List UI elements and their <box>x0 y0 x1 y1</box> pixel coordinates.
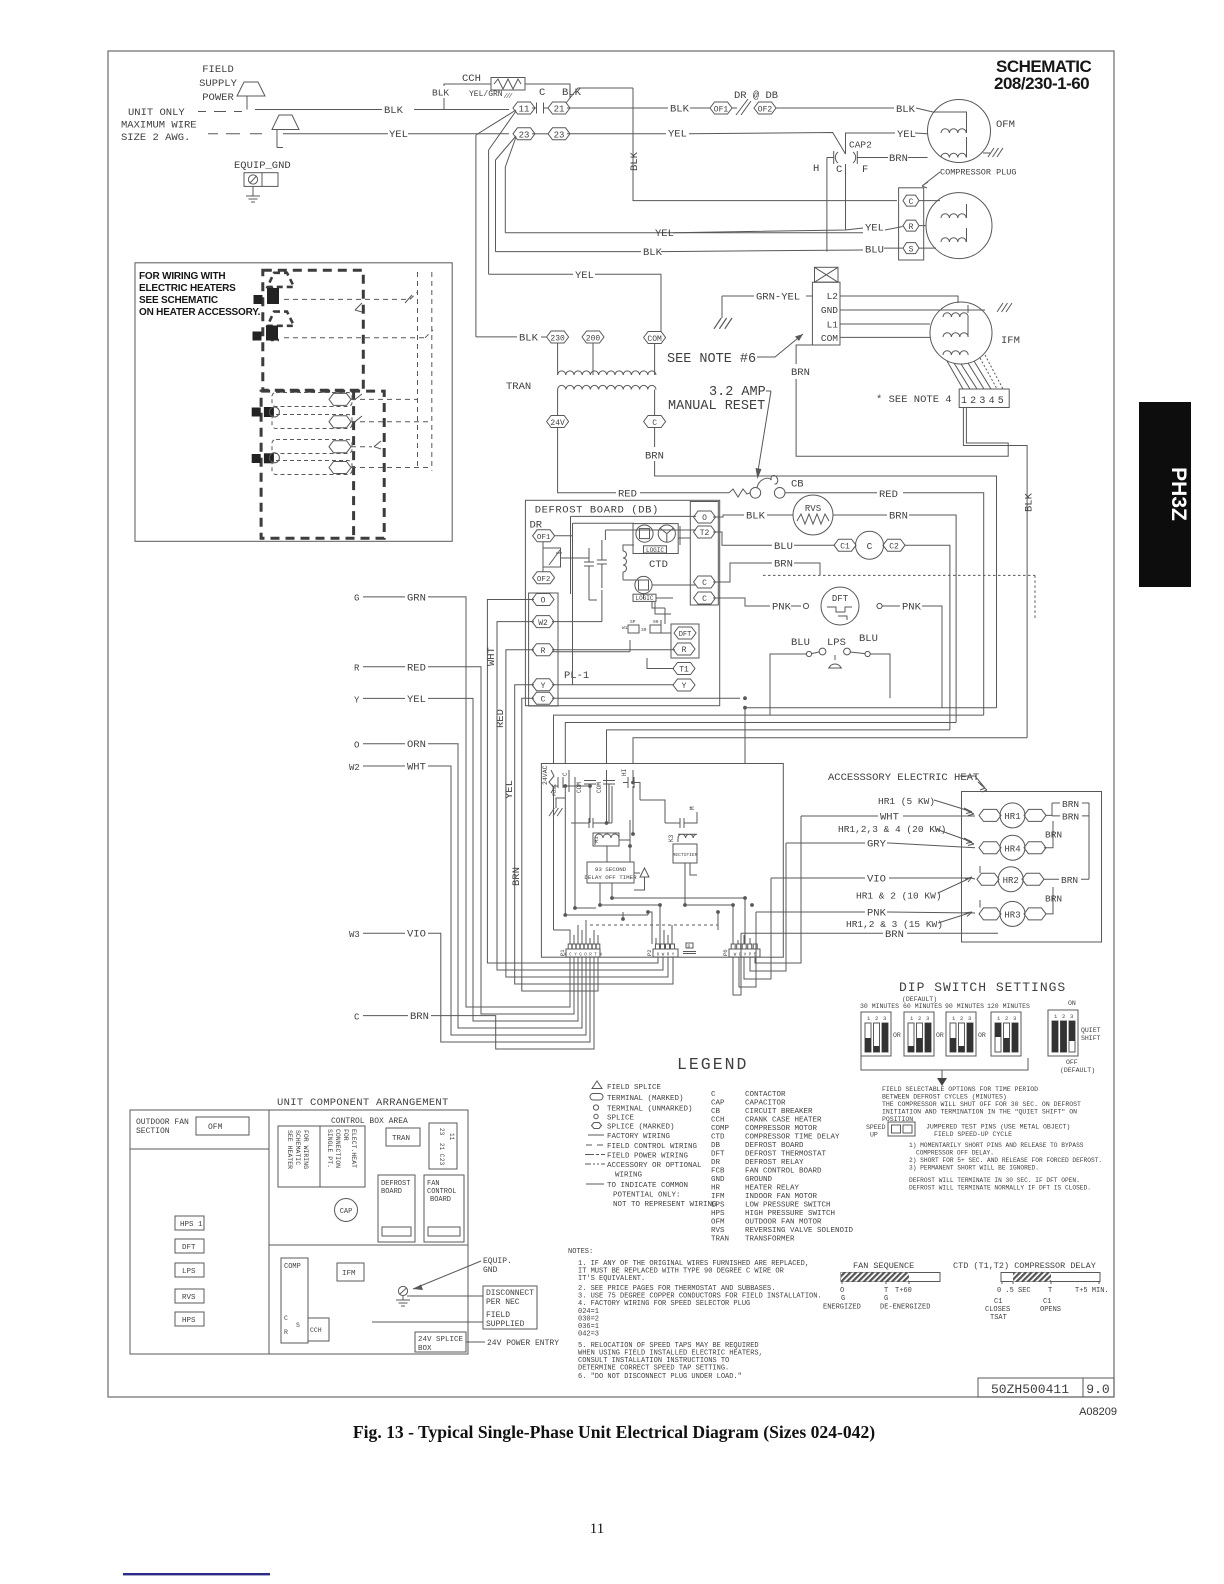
svg-text:12345: 12345 <box>961 396 1007 407</box>
svg-text:W2: W2 <box>349 763 360 773</box>
svg-text:R: R <box>541 647 546 656</box>
svg-text:PL-1: PL-1 <box>564 670 589 682</box>
dashed stubs from hexes <box>351 399 432 467</box>
field plug 1 <box>237 82 265 110</box>
svg-text:HR1,2 & 3 (15 KW): HR1,2 & 3 (15 KW) <box>846 919 943 930</box>
svg-text:FAN CONTROL BOARD: FAN CONTROL BOARD <box>745 1168 822 1176</box>
svg-text:TRANSFORMER: TRANSFORMER <box>745 1236 795 1244</box>
terminal 200 <box>582 331 604 343</box>
svg-text:NOTES:: NOTES: <box>568 1248 593 1256</box>
svg-text:11: 11 <box>448 1133 455 1141</box>
RVS box <box>175 1289 204 1303</box>
svg-text:FOR WIRING WITH: FOR WIRING WITH <box>139 271 225 282</box>
wire C lead down <box>845 164 847 230</box>
dashed leader to plug 2 <box>208 133 262 135</box>
svg-text:M: M <box>689 806 696 810</box>
svg-text:QUIET: QUIET <box>1081 1027 1101 1034</box>
svg-text:M1: M1 <box>593 836 600 843</box>
svg-text:CB: CB <box>791 479 804 491</box>
terminal T1 <box>673 663 695 675</box>
svg-text:LOGIC: LOGIC <box>635 595 653 602</box>
fan-out from terminal 23 <box>496 136 517 167</box>
svg-text:YEL: YEL <box>668 129 687 141</box>
svg-text:HR2: HR2 <box>1003 876 1019 886</box>
solenoid RVS <box>793 495 833 535</box>
svg-text:YEL: YEL <box>407 694 426 706</box>
legend: field power wiring <box>585 1154 605 1156</box>
svg-text:23: 23 <box>438 1128 445 1136</box>
svg-text:TRAN: TRAN <box>711 1236 729 1244</box>
svg-text:MANUAL RESET: MANUAL RESET <box>668 399 765 414</box>
heater box outline <box>962 792 1102 943</box>
svg-text:BRN: BRN <box>885 929 904 941</box>
defrost board DB outline <box>525 500 719 705</box>
wire BLU to S <box>496 248 903 252</box>
svg-text:W C Y G O R T W: W C Y G O R T W <box>564 954 602 958</box>
svg-text:HPS 1: HPS 1 <box>180 1221 203 1229</box>
svg-text:A08209: A08209 <box>1079 1406 1117 1418</box>
PH3Z black page tab <box>1139 402 1191 587</box>
heater plug rows in box 2 <box>272 393 352 475</box>
svg-text:GROUND: GROUND <box>745 1176 773 1184</box>
svg-text:TRAN: TRAN <box>506 381 531 393</box>
terminal 230 <box>547 331 569 343</box>
svg-text:FIELD: FIELD <box>202 64 234 76</box>
terminal OF1 <box>710 102 732 114</box>
svg-text:LEGEND: LEGEND <box>677 1055 748 1074</box>
splice (unmarked) left of DFT <box>803 603 808 608</box>
wire from plug to COM (BRN) <box>796 345 1008 456</box>
svg-text:SHIFT: SHIFT <box>1081 1035 1101 1042</box>
svg-text:FOR: FOR <box>342 1129 349 1141</box>
svg-text:Y: Y <box>354 695 360 705</box>
svg-text:R: R <box>909 223 914 232</box>
P2 riser wires <box>651 957 673 984</box>
svg-text:OFF: OFF <box>1066 1059 1078 1066</box>
wire YEL row from 23 to CAP2 <box>567 133 846 155</box>
svg-text:BRN: BRN <box>1061 875 1078 886</box>
svg-text:POWER: POWER <box>202 92 234 104</box>
junction box with X <box>815 267 839 282</box>
svg-text:CTD: CTD <box>649 559 668 571</box>
wire from C2 right <box>905 545 950 730</box>
relay HR1 <box>979 809 1001 821</box>
ground lug (unit) <box>398 1286 407 1295</box>
wire bend RED to control box <box>554 715 984 763</box>
svg-text:6. "DO NOT DISCONNECT PLUG UND: 6. "DO NOT DISCONNECT PLUG UNDER LOAD." <box>578 1373 742 1381</box>
terminal Y <box>532 679 554 691</box>
svg-text:HI: HI <box>621 769 628 776</box>
svg-text:3: 3 <box>968 1015 971 1022</box>
heavy dashed divider <box>352 391 355 538</box>
title block 50ZH500411 / 9.0 <box>978 1378 1083 1397</box>
svg-text:OUTDOOR FAN MOTOR: OUTDOOR FAN MOTOR <box>745 1219 822 1227</box>
svg-text:OF1: OF1 <box>537 534 551 542</box>
capacitor (DB) 1 <box>584 548 597 600</box>
svg-text:THE COMPRESSOR WILL SHUT OFF F: THE COMPRESSOR WILL SHUT OFF FOR 30 SEC.… <box>882 1101 1081 1108</box>
wire Y to bundle <box>515 685 669 984</box>
svg-text:COMP: COMP <box>284 1263 301 1271</box>
wire from plug 12345 down <box>963 408 1027 738</box>
wire BRN dashed common <box>713 563 820 582</box>
svg-text:G: G <box>884 1295 888 1303</box>
svg-text:IFM: IFM <box>342 1270 356 1278</box>
svg-text:COMPRESSOR OFF DELAY.: COMPRESSOR OFF DELAY. <box>916 1150 994 1157</box>
heater schematic note boxes <box>278 1126 365 1187</box>
svg-text:SEE NOTE #6: SEE NOTE #6 <box>667 352 756 367</box>
OFM box <box>196 1117 249 1135</box>
svg-text:NOT TO REPRESENT WIRING: NOT TO REPRESENT WIRING <box>613 1201 717 1209</box>
fan-out from terminal 11 <box>476 110 516 150</box>
speed tap wires IFM to plug <box>947 361 991 389</box>
resistor CCH <box>491 78 525 91</box>
coil K3 <box>678 834 697 842</box>
svg-text:CCH: CCH <box>310 1327 322 1334</box>
svg-text:C: C <box>562 772 569 776</box>
capacitor (DB) 2 <box>597 540 607 588</box>
IFM box <box>337 1263 364 1281</box>
terminal T2 <box>694 526 716 538</box>
legend symbol: field splice <box>592 1081 602 1089</box>
wire vertical to YEL row 2 <box>504 167 506 233</box>
svg-text:COMP: COMP <box>711 1125 730 1133</box>
wire OF2 to OFM <box>776 108 933 112</box>
terminal C (right strip upper) <box>694 576 716 588</box>
svg-text:90: 90 <box>653 619 659 625</box>
svg-text:BRN: BRN <box>410 1011 429 1023</box>
svg-text:OR: OR <box>893 1032 901 1039</box>
legend abbreviations column <box>711 1091 854 1244</box>
svg-text:C: C <box>909 198 914 207</box>
svg-text:RVS: RVS <box>805 504 821 514</box>
DB right terminal strip <box>690 502 718 606</box>
svg-text:P2: P2 <box>646 949 653 956</box>
motor IFM <box>930 302 992 364</box>
svg-text:RECTIFIER: RECTIFIER <box>673 852 698 858</box>
svg-text:30 MINUTES: 30 MINUTES <box>860 1003 899 1010</box>
svg-text:DFT: DFT <box>679 631 692 639</box>
svg-text:PNK: PNK <box>772 602 792 614</box>
svg-text:C1: C1 <box>840 542 850 551</box>
svg-text:DFT: DFT <box>711 1151 725 1159</box>
wire RED right of CB <box>785 493 984 715</box>
svg-text:FOR WIRING: FOR WIRING <box>302 1130 309 1169</box>
svg-text:YEL: YEL <box>865 222 884 234</box>
svg-text:O: O <box>354 741 359 751</box>
svg-text:COM: COM <box>821 333 838 344</box>
svg-text:O: O <box>702 514 707 523</box>
legend symbol: terminal unmarked <box>593 1105 598 1110</box>
svg-text:PNK: PNK <box>902 602 922 614</box>
svg-text:COMPRESSOR TIME DELAY: COMPRESSOR TIME DELAY <box>745 1134 840 1142</box>
wire branch up to vertical BLK <box>570 88 897 201</box>
svg-text:FACTORY WIRING: FACTORY WIRING <box>607 1133 671 1141</box>
svg-text:SP: SP <box>630 619 636 625</box>
dip block 90 minutes <box>946 1012 976 1056</box>
terminal COM <box>644 332 666 344</box>
svg-text:DEFROST: DEFROST <box>381 1180 410 1188</box>
terminal C (right strip lower) <box>694 592 716 604</box>
svg-text:BLK: BLK <box>746 511 766 523</box>
terminal W2 <box>532 616 554 628</box>
svg-text:IFM: IFM <box>1001 335 1020 347</box>
svg-text:2: 2 <box>875 1015 878 1022</box>
svg-text:1) MOMENTARILY SHORT PINS AND: 1) MOMENTARILY SHORT PINS AND RELEASE TO… <box>909 1142 1084 1149</box>
wire CAP2-C to OFM <box>846 133 928 154</box>
wire YEL to COM (tran) <box>489 274 661 331</box>
svg-text:BRN: BRN <box>1062 812 1079 823</box>
svg-text:DISCONNECT: DISCONNECT <box>486 1289 534 1298</box>
wire GRN-YEL <box>722 295 812 297</box>
wire bend BRN(C) to control box <box>745 708 997 764</box>
compressor motor <box>926 193 992 259</box>
svg-text:ELECTRIC HEATERS: ELECTRIC HEATERS <box>139 283 236 294</box>
jumper icons <box>628 625 639 633</box>
svg-text:24V SPLICE: 24V SPLICE <box>418 1336 464 1344</box>
svg-text:BLU: BLU <box>865 245 884 257</box>
svg-text:GRY: GRY <box>867 839 887 851</box>
wire vertical to YEL row <box>488 150 490 274</box>
svg-text:OF1: OF1 <box>714 106 729 115</box>
svg-text:50ZH500411: 50ZH500411 <box>991 1382 1069 1397</box>
svg-text:TO INDICATE COMMON: TO INDICATE COMMON <box>607 1182 688 1190</box>
wire BLU from T2 to C1 <box>713 532 835 545</box>
DB internal wiring <box>552 516 740 698</box>
svg-text:HR: HR <box>711 1185 721 1193</box>
svg-text:CONTROL: CONTROL <box>427 1188 456 1196</box>
svg-text:O: O <box>840 1287 844 1295</box>
partition vertical <box>268 1110 270 1354</box>
svg-text:WHT: WHT <box>880 812 899 824</box>
wire R to bundle <box>506 650 663 977</box>
svg-text:LPS: LPS <box>827 637 846 649</box>
svg-text:2: 2 <box>960 1015 963 1022</box>
svg-text:BRN: BRN <box>774 559 793 571</box>
top row connections <box>554 770 641 800</box>
LPS box <box>175 1263 204 1277</box>
svg-text:GND: GND <box>483 1266 498 1275</box>
svg-text:IFM: IFM <box>711 1193 725 1201</box>
svg-text:H: H <box>813 163 819 175</box>
equip ground lug box <box>244 173 278 187</box>
relay HR2 <box>977 873 999 885</box>
svg-text:YEL: YEL <box>504 780 516 799</box>
wire W2 to bundle <box>497 622 657 970</box>
field selectable text <box>882 1086 1081 1123</box>
svg-text:EQUIP_GND: EQUIP_GND <box>234 160 291 172</box>
svg-text:BLK: BLK <box>432 88 449 99</box>
DEFROST BOARD box <box>378 1175 415 1242</box>
svg-text:K3: K3 <box>668 834 675 842</box>
svg-text:ACCESSSORY ELECTRIC HEAT: ACCESSSORY ELECTRIC HEAT <box>828 772 979 784</box>
svg-text:BLK: BLK <box>384 105 404 117</box>
svg-text:W3: W3 <box>349 930 360 940</box>
svg-text:200: 200 <box>586 334 601 343</box>
relay coil M1 <box>595 834 619 845</box>
connector P6 <box>729 949 760 957</box>
svg-text:24V: 24V <box>550 419 565 428</box>
svg-text:DEFROST RELAY: DEFROST RELAY <box>745 1159 804 1167</box>
dashed vertical taps <box>418 272 432 471</box>
svg-text:HR1: HR1 <box>1004 812 1020 822</box>
svg-text:BRN: BRN <box>889 511 908 523</box>
dip block quiet shift <box>1048 1010 1078 1056</box>
terminal strip L2 GND L1 COM <box>812 282 840 345</box>
CTD block <box>633 524 678 554</box>
circuit breaker CB <box>729 489 750 497</box>
svg-text:HR1 (5 KW): HR1 (5 KW) <box>878 796 935 807</box>
legend symbol: terminal marked <box>590 1094 603 1101</box>
svg-text:T1: T1 <box>679 666 689 675</box>
relay DR coil box <box>543 548 561 567</box>
svg-text:SINGLE PT.: SINGLE PT. <box>326 1129 333 1168</box>
svg-text:ON HEATER ACCESSORY.: ON HEATER ACCESSORY. <box>139 307 261 318</box>
transformer secondary coil <box>558 385 656 389</box>
svg-text:G: G <box>354 593 359 603</box>
svg-text:RVS: RVS <box>182 1294 196 1302</box>
svg-text:GND: GND <box>821 305 838 316</box>
svg-text:3: 3 <box>1013 1015 1016 1022</box>
wire branch to crank case heater <box>444 84 491 110</box>
svg-text:9.0: 9.0 <box>1086 1382 1109 1397</box>
legend symbol: splice marked <box>592 1123 602 1129</box>
wire BLU right of LPS <box>870 654 890 698</box>
svg-text:1: 1 <box>910 1015 914 1022</box>
junction dots <box>743 706 747 710</box>
svg-text:C: C <box>702 595 707 604</box>
svg-text:LOGIC: LOGIC <box>646 547 664 554</box>
svg-text:BLK: BLK <box>519 333 539 345</box>
svg-text:ELECT.HEAT: ELECT.HEAT <box>350 1129 357 1168</box>
svg-text:HEATER RELAY: HEATER RELAY <box>745 1185 800 1193</box>
svg-text:PER NEC: PER NEC <box>486 1298 520 1307</box>
wires to connectors <box>554 898 757 944</box>
capacitor bank top row <box>558 770 634 792</box>
svg-text:CONNECTION: CONNECTION <box>334 1129 341 1168</box>
svg-text:INDOOR FAN MOTOR: INDOOR FAN MOTOR <box>745 1193 818 1201</box>
svg-text:OR: OR <box>936 1032 944 1039</box>
DFT/R terminal box <box>671 624 699 658</box>
capacitor mid left <box>571 818 612 828</box>
svg-text:SPLICE (MARKED): SPLICE (MARKED) <box>607 1124 675 1132</box>
svg-text:230: 230 <box>550 334 565 343</box>
DISCONNECT PER NEC / FIELD SUPPLIED box <box>483 1286 537 1329</box>
compressor COMP box <box>281 1258 308 1343</box>
svg-text:HR1 & 2 (10 KW): HR1 & 2 (10 KW) <box>856 891 942 902</box>
LOGIC label box (CTD) <box>644 546 667 553</box>
svg-text:UP: UP <box>870 1132 878 1139</box>
dashed plug B <box>268 312 295 340</box>
svg-text:DETERMINE CORRECT SPEED TAP SE: DETERMINE CORRECT SPEED TAP SETTING. <box>578 1365 729 1373</box>
svg-text:T+60: T+60 <box>895 1287 912 1295</box>
legend: factory wiring <box>588 1134 604 1136</box>
svg-text:YEL/GRN: YEL/GRN <box>469 90 503 99</box>
svg-text:BRN: BRN <box>511 867 523 886</box>
transformer primary leads <box>558 343 655 375</box>
svg-text:C1: C1 <box>994 1298 1002 1306</box>
svg-text:BLU: BLU <box>791 637 810 649</box>
triangle splice <box>640 868 649 884</box>
terminal OF1 (DB) <box>533 530 555 542</box>
svg-text:OFM: OFM <box>996 119 1015 131</box>
svg-text:CONTACTOR: CONTACTOR <box>745 1091 786 1099</box>
svg-text:RED: RED <box>495 709 507 728</box>
svg-text:SUPPLIED: SUPPLIED <box>486 1320 525 1329</box>
svg-text:23: 23 <box>438 1158 445 1166</box>
wire bend BLK to control box <box>633 738 1027 764</box>
svg-text:T+5 MIN.: T+5 MIN. <box>1075 1287 1109 1295</box>
svg-text:OFM: OFM <box>208 1123 223 1132</box>
svg-text:P6: P6 <box>722 949 729 956</box>
contactor terminal box <box>429 1123 457 1169</box>
selection bracket + arrow <box>861 1056 1028 1078</box>
wire vertical to BLK row <box>495 160 497 252</box>
svg-text:3: 3 <box>883 1015 886 1022</box>
svg-text:DEFROST THERMOSTAT: DEFROST THERMOSTAT <box>745 1151 827 1159</box>
svg-text:HR3: HR3 <box>1004 911 1020 921</box>
svg-text:Fig. 13 - Typical Single-Phase: Fig. 13 - Typical Single-Phase Unit Elec… <box>353 1422 875 1442</box>
dip block 120 minutes <box>991 1012 1021 1056</box>
wire YEL to R <box>505 227 902 233</box>
svg-text:UNIT COMPONENT ARRANGEMENT: UNIT COMPONENT ARRANGEMENT <box>277 1097 449 1109</box>
svg-text:FIELD CONTROL WIRING: FIELD CONTROL WIRING <box>607 1143 698 1151</box>
svg-text:YEL: YEL <box>655 228 674 240</box>
timer box 93 SECOND DELAY OFF TIMER <box>587 862 634 883</box>
rectifier box <box>673 844 697 863</box>
svg-text:C: C <box>867 541 873 552</box>
label 24V POWER ENTRY <box>466 1341 485 1343</box>
svg-text:C: C <box>836 164 842 176</box>
LOGIC label box 2 <box>633 594 656 601</box>
svg-text:CAP: CAP <box>711 1100 725 1108</box>
svg-text:(DEFAULT): (DEFAULT) <box>902 996 937 1003</box>
svg-text:CIRCUIT BREAKER: CIRCUIT BREAKER <box>745 1108 813 1116</box>
terminal Y (DB right) <box>673 679 695 691</box>
svg-text:FIELD SPEED-UP CYCLE: FIELD SPEED-UP CYCLE <box>934 1131 1012 1138</box>
ground (earth) <box>252 186 254 196</box>
svg-text:SIZE 2 AWG.: SIZE 2 AWG. <box>121 132 190 144</box>
svg-text:DB: DB <box>711 1142 721 1150</box>
svg-text:EQUIP.: EQUIP. <box>483 1257 512 1266</box>
svg-text:OFM: OFM <box>711 1219 725 1227</box>
svg-text:1: 1 <box>997 1015 1001 1022</box>
ground left of L-box <box>721 296 723 318</box>
svg-text:COMPRESSOR MOTOR: COMPRESSOR MOTOR <box>745 1125 818 1133</box>
svg-text:CCH: CCH <box>711 1117 725 1125</box>
svg-text:2: 2 <box>1062 1013 1065 1020</box>
contactor C <box>856 531 884 559</box>
svg-text:YEL: YEL <box>575 270 594 282</box>
wire RED from 24V <box>558 428 729 493</box>
svg-text:C: C <box>539 87 545 99</box>
field plug 2 <box>272 115 299 148</box>
svg-text:21 C: 21 C <box>438 1143 445 1158</box>
svg-text:POTENTIAL ONLY:: POTENTIAL ONLY: <box>613 1192 681 1200</box>
terminal C (24v) <box>644 416 666 428</box>
svg-text:BLK: BLK <box>562 87 582 99</box>
wire BLK from plug1 to terminal 11 <box>255 109 509 111</box>
svg-text:YEL: YEL <box>389 129 408 141</box>
svg-text:DELAY OFF TIMER: DELAY OFF TIMER <box>584 874 637 881</box>
svg-text:1: 1 <box>867 1015 871 1022</box>
svg-text:C: C <box>652 419 657 428</box>
svg-text:120 MINUTES: 120 MINUTES <box>987 1003 1030 1010</box>
stub wires above left hexes <box>979 866 981 908</box>
svg-text:O: O <box>541 597 546 606</box>
terminal C1 <box>834 539 856 551</box>
wire vertical to TRAN 230 <box>475 135 477 337</box>
motor OFM <box>928 100 991 163</box>
